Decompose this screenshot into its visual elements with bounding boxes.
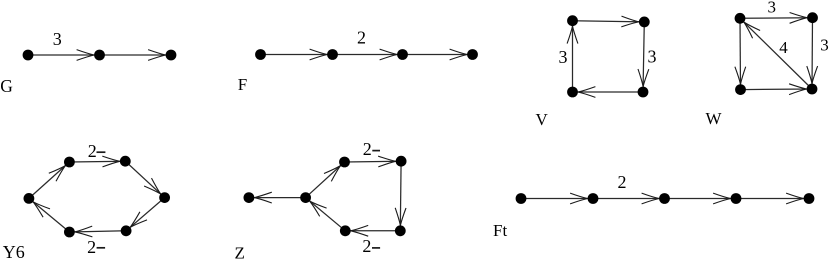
svg-text:2: 2 <box>88 141 97 161</box>
svg-text:2: 2 <box>357 27 366 47</box>
svg-text:G: G <box>0 76 13 96</box>
svg-text:3: 3 <box>559 47 568 67</box>
svg-text:3: 3 <box>768 0 777 16</box>
svg-text:2: 2 <box>87 237 96 257</box>
svg-text:Z: Z <box>235 244 245 259</box>
svg-text:2: 2 <box>363 139 372 159</box>
svg-text:2: 2 <box>362 236 371 256</box>
svg-text:2: 2 <box>618 172 627 192</box>
svg-text:3: 3 <box>820 36 829 55</box>
svg-text:V: V <box>536 110 549 129</box>
svg-text:F: F <box>238 75 247 94</box>
svg-text:Ft: Ft <box>493 221 507 240</box>
svg-text:4: 4 <box>779 38 788 57</box>
svg-text:Y6: Y6 <box>3 242 25 259</box>
svg-text:W: W <box>706 109 723 128</box>
svg-text:3: 3 <box>648 47 657 67</box>
svg-text:3: 3 <box>53 29 62 49</box>
